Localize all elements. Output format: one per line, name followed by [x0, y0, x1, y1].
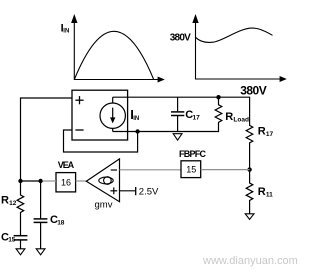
- svg-text:2.5V: 2.5V: [139, 187, 159, 198]
- gm symbol circles: [99, 177, 113, 184]
- capacitor C17: [171, 97, 184, 131]
- wire bottom rail: [113, 131, 219, 133]
- right graph vertical axis: [196, 20, 283, 80]
- minus input mark: [111, 169, 117, 171]
- resistor R17: [246, 124, 253, 169]
- svg-text:FBPFC: FBPFC: [179, 149, 206, 159]
- wire 380V rail: [113, 97, 250, 124]
- node dot bottom rail: [135, 129, 139, 133]
- svg-text:12: 12: [9, 200, 17, 207]
- svg-text:15: 15: [8, 237, 16, 244]
- svg-text:Load: Load: [233, 117, 249, 124]
- node dot left rail / R12: [18, 179, 22, 183]
- svg-text:15: 15: [186, 165, 196, 175]
- wire current source top to rail: [112, 97, 114, 103]
- ground under C18: [36, 249, 45, 255]
- resistor R12: [17, 181, 24, 235]
- svg-text:11: 11: [266, 192, 273, 199]
- FBPFC pin box 15: [181, 161, 201, 178]
- svg-text:17: 17: [193, 114, 201, 121]
- ground under C15: [16, 249, 25, 255]
- svg-text:IN: IN: [133, 116, 139, 122]
- wire VEA box to gmv apex (gray): [76, 180, 87, 182]
- right graph ripple curve: [196, 28, 273, 42]
- current source I1 circle: [100, 103, 125, 128]
- wire gmv output to FBPFC (gray): [120, 169, 182, 171]
- svg-text:IN: IN: [63, 29, 69, 35]
- node dot at RLoad top: [216, 95, 220, 99]
- svg-text:17: 17: [266, 131, 274, 138]
- svg-text:16: 16: [61, 177, 71, 187]
- svg-text:www.dianyuan.com: www.dianyuan.com: [202, 255, 298, 267]
- capacitor C18: [40, 181, 42, 218]
- ground under C17: [173, 134, 182, 141]
- resistor RLoad: [215, 97, 222, 131]
- wire current source bottom to bottom rail: [112, 128, 114, 131]
- resistor R11: [246, 170, 253, 214]
- VEA pin box 16: [56, 173, 76, 192]
- plus input mark: [110, 187, 117, 194]
- left graph axis arrowheads: [71, 14, 77, 23]
- right graph axis arrowheads: [192, 14, 198, 23]
- left graph vertical axis: [74, 20, 161, 80]
- svg-text:380V: 380V: [240, 83, 267, 97]
- wire minus-terminal loop: [64, 130, 138, 152]
- op-amp gmv triangle: [86, 159, 119, 202]
- svg-text:R: R: [1, 194, 9, 206]
- plus terminal mark: [75, 96, 83, 104]
- node dot R17/R11 junction: [247, 167, 251, 171]
- capacitor C15: [14, 236, 28, 240]
- ground under R11: [245, 214, 254, 220]
- svg-text:VEA: VEA: [58, 160, 75, 170]
- svg-text:18: 18: [57, 219, 65, 226]
- svg-text:R: R: [225, 111, 233, 123]
- svg-text:R: R: [258, 186, 266, 198]
- wire FBPFC to R17/R11 junction (gray): [201, 169, 250, 171]
- wire C18 node to VEA box (gray): [43, 180, 56, 182]
- current source arrow: [112, 108, 114, 119]
- rectifier/input box: [72, 90, 128, 140]
- minus terminal mark: [75, 129, 83, 131]
- svg-text:380V: 380V: [170, 32, 191, 43]
- wire to C18 branch: [21, 180, 41, 182]
- node dot C18 branch: [38, 179, 42, 183]
- wire plus terminal to left rail: [21, 98, 73, 181]
- svg-text:gmv: gmv: [95, 200, 113, 211]
- svg-text:R: R: [258, 125, 266, 137]
- 2.5V reference tick: [135, 187, 137, 195]
- wire plus input to 2.5V reference: [120, 190, 136, 192]
- left graph half-sine curve: [74, 31, 153, 79]
